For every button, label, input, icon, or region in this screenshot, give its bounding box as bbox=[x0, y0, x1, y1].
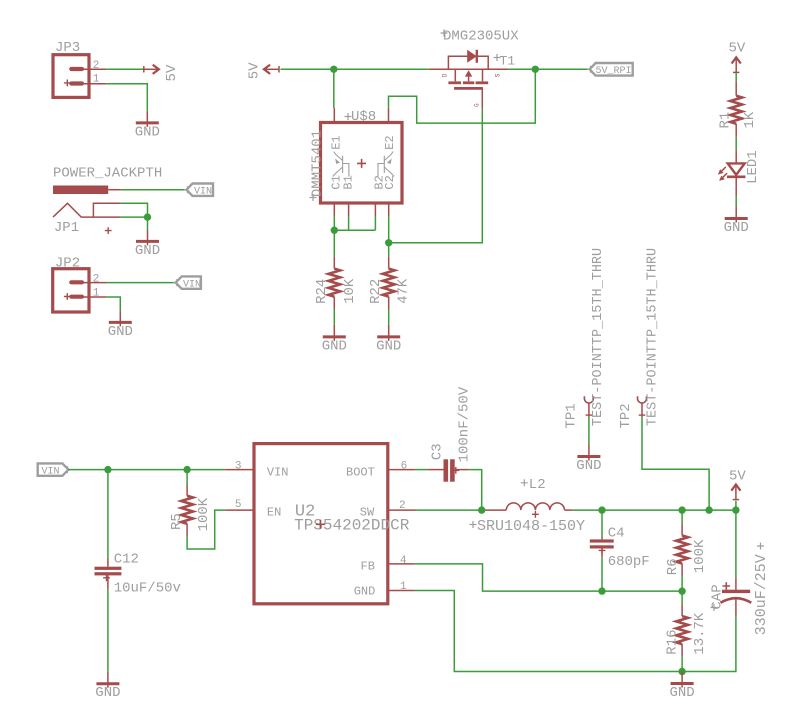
pin cross at 5V_RPI tip bbox=[587, 66, 594, 73]
wire SW to L2 bbox=[416, 509, 486, 511]
svg-text:5V: 5V bbox=[164, 64, 180, 81]
ground GND (TP1) bbox=[576, 445, 601, 475]
value SRU1048-150Y bbox=[470, 518, 586, 535]
pin cross at VIN flag tip (JP2) bbox=[173, 279, 180, 286]
svg-text:5V_RPI: 5V_RPI bbox=[596, 66, 632, 77]
label U$8 bbox=[345, 109, 377, 125]
junction jack GND node bbox=[144, 213, 151, 220]
svg-text:C4: C4 bbox=[608, 525, 625, 541]
label L2 bbox=[521, 477, 546, 493]
transistor array U$8 DMMT5401 bbox=[321, 108, 403, 217]
svg-text:LED1: LED1 bbox=[745, 150, 761, 184]
junction SW/C3 bbox=[478, 506, 485, 513]
resistor R1 bbox=[730, 82, 742, 138]
origin cross DMMT5401 bbox=[310, 194, 317, 201]
svg-text:680pF: 680pF bbox=[608, 554, 650, 570]
svg-text:U$8: U$8 bbox=[351, 109, 376, 125]
svg-text:TEST-POINTTP_15TH_THRU: TEST-POINTTP_15TH_THRU bbox=[646, 248, 661, 426]
ground GND (R24) bbox=[322, 325, 347, 355]
wire 5V arrow to rail bbox=[735, 501, 737, 510]
ground GND (C12) bbox=[95, 672, 120, 702]
wire R6 to FB net bbox=[681, 576, 683, 592]
svg-text:VIN: VIN bbox=[42, 466, 60, 477]
junction C2/gate/R22 bbox=[385, 239, 392, 246]
svg-text:330uF/25V: 330uF/25V bbox=[753, 554, 770, 635]
label DMG2305UX bbox=[441, 29, 520, 45]
svg-text:EN: EN bbox=[267, 506, 281, 520]
svg-text:TPS54202DDCR: TPS54202DDCR bbox=[294, 517, 410, 535]
junction VIN/R5 bbox=[183, 466, 190, 473]
wire E1 riser bbox=[333, 69, 335, 108]
wire JP2 pin1 to GND bbox=[107, 297, 121, 310]
svg-text:POWER_JACKPTH: POWER_JACKPTH bbox=[53, 166, 162, 182]
svg-text:1: 1 bbox=[93, 74, 100, 86]
svg-text:JP3: JP3 bbox=[55, 40, 80, 56]
wire FB net bbox=[415, 564, 682, 591]
svg-text:5V: 5V bbox=[729, 41, 746, 57]
pin cross at VIN flag tip (input) bbox=[64, 466, 71, 473]
supply 5V (LED column) bbox=[732, 57, 741, 73]
wire JP2 pin2 to VIN flag bbox=[107, 282, 176, 284]
svg-text:S: S bbox=[495, 73, 502, 77]
wire 5V to R1 bbox=[735, 73, 737, 82]
ground GND (LED1) bbox=[724, 207, 749, 237]
junction out/C4 bbox=[598, 506, 605, 513]
net flag VIN (JP2) bbox=[176, 276, 201, 290]
svg-text:SRU1048-150Y: SRU1048-150Y bbox=[477, 518, 585, 535]
wire R24 to GND bbox=[333, 309, 335, 325]
svg-text:47K: 47K bbox=[396, 278, 412, 304]
wire B1 down bbox=[348, 216, 350, 230]
svg-text:5V: 5V bbox=[247, 62, 263, 79]
wire jack pins to junction bbox=[121, 203, 148, 217]
resistor R22 bbox=[383, 257, 395, 309]
wire B2 down bbox=[374, 216, 376, 230]
test point TP2 bbox=[638, 396, 647, 417]
svg-text:E1: E1 bbox=[330, 135, 344, 149]
wire C12 to GND bbox=[107, 590, 109, 672]
resistor R6 bbox=[676, 524, 688, 576]
junction out/TP2 bbox=[705, 506, 712, 513]
wire C4 to FB net bbox=[601, 557, 603, 591]
junction out/R6 bbox=[678, 506, 685, 513]
wire R5 branch bbox=[186, 470, 188, 485]
wire source to flag bbox=[508, 68, 589, 70]
svg-text:T1: T1 bbox=[500, 54, 516, 69]
wire CAP branch bbox=[735, 510, 737, 577]
connector JP2 bbox=[53, 269, 107, 312]
connector JP3 bbox=[53, 55, 107, 98]
svg-text:10K: 10K bbox=[342, 278, 358, 304]
capacitor C3 bbox=[428, 459, 468, 481]
wire GND net (U2 pin1) bbox=[415, 591, 736, 672]
svg-text:100K: 100K bbox=[196, 497, 212, 531]
origin cross U2 bbox=[316, 520, 325, 529]
svg-text:1: 1 bbox=[400, 581, 407, 593]
supply 5V (left arrow at rail) bbox=[264, 65, 280, 74]
wire gate net bbox=[389, 109, 483, 243]
wire base tie bbox=[334, 229, 375, 231]
svg-text:6: 6 bbox=[401, 461, 408, 473]
svg-text:VIN: VIN bbox=[267, 466, 289, 480]
transistor T1 DMG2305UX PMOS bbox=[429, 50, 509, 109]
wire junction to GND bbox=[147, 217, 149, 229]
supply 5V (right arrow at JP3) bbox=[143, 65, 159, 74]
wire C3 to SW node bbox=[468, 470, 482, 511]
svg-text:DMMT5401: DMMT5401 bbox=[310, 130, 326, 197]
wire TP1 to GND bbox=[588, 417, 590, 445]
svg-text:R1: R1 bbox=[718, 112, 734, 129]
svg-text:13.7K: 13.7K bbox=[692, 612, 708, 655]
wire output rail bbox=[573, 509, 736, 511]
svg-text:JP1: JP1 bbox=[54, 220, 79, 236]
label T1 bbox=[494, 54, 516, 69]
wire JP3 pin2 to 5V bbox=[107, 68, 148, 70]
wire JP3 pin1 to GND bbox=[107, 84, 148, 111]
transistor glyph Q-B (inside U$8) bbox=[378, 152, 394, 177]
net flag 5V_RPI bbox=[590, 63, 633, 77]
polarity + (JP1) bbox=[105, 227, 112, 234]
power jack JP1 bbox=[53, 186, 121, 218]
junction GND/R16 bbox=[678, 668, 685, 675]
wire TP2 to output node bbox=[642, 417, 709, 510]
supply 5V (output) bbox=[731, 485, 740, 501]
svg-text:4: 4 bbox=[400, 555, 407, 567]
wire 5V rail bbox=[281, 68, 429, 70]
wire R16 to GND net bbox=[681, 656, 683, 671]
inductor L2 bbox=[485, 503, 573, 518]
svg-text:TP1: TP1 bbox=[564, 403, 580, 428]
svg-text:R6: R6 bbox=[665, 558, 681, 575]
wire BOOT to C3 bbox=[415, 469, 428, 471]
svg-text:C3: C3 bbox=[429, 443, 445, 460]
IC U2 TPS54202DDCR bbox=[225, 444, 415, 604]
junction out/CAP bbox=[732, 506, 739, 513]
svg-text:2: 2 bbox=[399, 500, 406, 512]
resistor R5 bbox=[181, 485, 193, 537]
wire R22 to GND bbox=[388, 309, 390, 325]
svg-text:GND: GND bbox=[354, 584, 376, 598]
wire E2 net to rail bbox=[389, 69, 536, 123]
svg-text:R5: R5 bbox=[169, 513, 185, 530]
svg-text:G: G bbox=[474, 103, 481, 107]
svg-text:3: 3 bbox=[235, 461, 242, 473]
svg-text:VIN: VIN bbox=[183, 279, 201, 290]
svg-text:2: 2 bbox=[93, 60, 100, 72]
test point TP1 bbox=[584, 396, 593, 417]
wire VIN rail bbox=[68, 469, 225, 471]
capacitor C4 bbox=[590, 537, 614, 558]
ground GND (R22) bbox=[376, 325, 401, 355]
wire C2 down bbox=[388, 216, 390, 256]
ground GND (JP3) bbox=[135, 111, 160, 140]
ground GND (JP2) bbox=[108, 310, 133, 340]
LED LED1 bbox=[718, 150, 746, 196]
svg-text:TEST-POINTTP_15TH_THRU: TEST-POINTTP_15TH_THRU bbox=[591, 248, 606, 426]
wire R1 to LED1 bbox=[735, 138, 737, 150]
svg-text:R24: R24 bbox=[314, 279, 330, 304]
svg-text:R22: R22 bbox=[368, 279, 384, 304]
wire LED1 to GND bbox=[735, 196, 737, 206]
wire C1 down bbox=[333, 216, 335, 256]
junction FB/R6/R16 bbox=[678, 587, 685, 594]
ground GND (JP1) bbox=[135, 229, 160, 259]
origin cross U$8 center bbox=[357, 159, 366, 168]
wire R6 branch bbox=[681, 510, 683, 523]
svg-text:100nF/50V: 100nF/50V bbox=[456, 386, 472, 462]
svg-text:5: 5 bbox=[235, 499, 242, 511]
junction C1/B1/B2 bbox=[331, 227, 338, 234]
label CAP vertical bbox=[710, 584, 726, 611]
junction source node bbox=[532, 66, 539, 73]
svg-text:CAP: CAP bbox=[710, 584, 726, 609]
transistor glyph Q-A (inside U$8) bbox=[333, 152, 349, 177]
wire R16 branch bbox=[681, 591, 683, 604]
junction rail / U$8 E1 bbox=[330, 66, 337, 73]
svg-text:C2: C2 bbox=[383, 175, 397, 189]
svg-text:B1: B1 bbox=[342, 175, 356, 189]
svg-text:VIN: VIN bbox=[194, 186, 212, 197]
resistor R16 bbox=[676, 604, 688, 656]
svg-text:100K: 100K bbox=[692, 539, 708, 573]
svg-text:C12: C12 bbox=[114, 552, 139, 568]
svg-text:DMG2305UX: DMG2305UX bbox=[443, 29, 519, 45]
svg-text:1: 1 bbox=[93, 287, 100, 299]
wire jack sleeve bbox=[121, 216, 148, 218]
svg-text:E2: E2 bbox=[383, 135, 397, 149]
resistor R24 bbox=[328, 257, 340, 309]
svg-text:TP2: TP2 bbox=[618, 403, 634, 428]
svg-text:SW: SW bbox=[360, 506, 375, 520]
junction VIN/C12 bbox=[104, 466, 111, 473]
svg-text:FB: FB bbox=[361, 560, 375, 574]
net flag VIN (input, bottom) bbox=[38, 463, 69, 477]
svg-text:R16: R16 bbox=[664, 629, 680, 654]
ground GND (output) bbox=[669, 672, 694, 702]
net flag VIN (jack) bbox=[187, 184, 214, 198]
svg-text:D: D bbox=[442, 73, 449, 77]
svg-text:BOOT: BOOT bbox=[346, 466, 375, 480]
wire jack to VIN flag bbox=[121, 189, 187, 191]
wire C12 branch bbox=[107, 470, 109, 558]
svg-text:1K: 1K bbox=[742, 111, 758, 128]
wire C4 branch bbox=[601, 510, 603, 536]
capacitor CAP 330uF polarized bbox=[721, 577, 752, 616]
svg-text:10uF/50v: 10uF/50v bbox=[114, 580, 181, 596]
svg-text:JP2: JP2 bbox=[55, 256, 80, 272]
capacitor C12 bbox=[95, 558, 122, 590]
svg-text:2: 2 bbox=[93, 274, 100, 286]
value 330uF/25V vertical bbox=[753, 543, 770, 636]
svg-text:L2: L2 bbox=[529, 477, 546, 493]
pin cross at VIN flag tip (jack) bbox=[184, 186, 191, 193]
junction FB/C4 bbox=[598, 587, 605, 594]
svg-text:5V: 5V bbox=[729, 469, 746, 485]
wire R5 to EN bbox=[187, 510, 225, 549]
